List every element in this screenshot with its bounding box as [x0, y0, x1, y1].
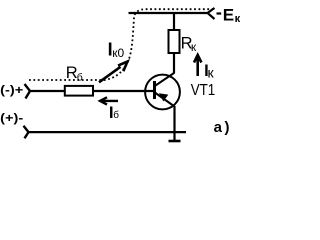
- svg-text:к: к: [235, 13, 241, 25]
- svg-text:к: к: [208, 65, 215, 81]
- svg-text:б: б: [113, 109, 119, 121]
- svg-text:б: б: [77, 72, 83, 84]
- svg-text:к: к: [191, 40, 197, 54]
- svg-text:E: E: [223, 6, 234, 25]
- svg-text:к0: к0: [112, 46, 124, 60]
- svg-text:(+)-: (+)-: [0, 111, 23, 125]
- svg-text:a): a): [214, 119, 230, 136]
- svg-text:VT1: VT1: [191, 82, 216, 99]
- svg-text:(-)+: (-)+: [0, 83, 23, 97]
